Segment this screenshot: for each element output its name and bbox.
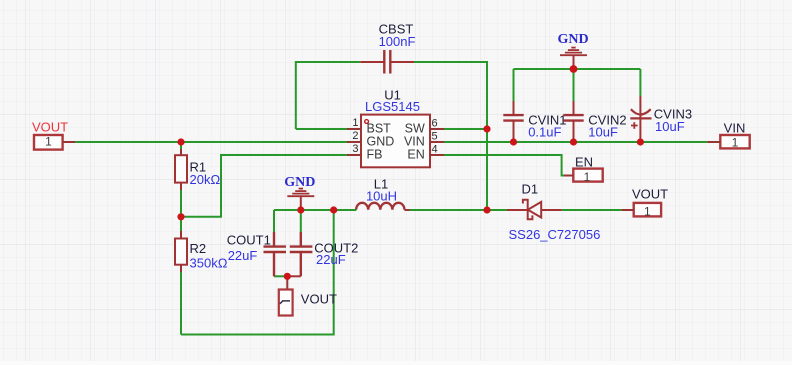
svg-text:D1: D1 xyxy=(522,182,539,197)
junction node CVIN3 xyxy=(637,138,644,145)
junction node CVIN2 xyxy=(570,138,577,145)
capacitor CVIN3 polarized xyxy=(630,96,651,142)
svg-text:4: 4 xyxy=(432,144,438,156)
ground (top right) xyxy=(560,48,587,69)
wire: FB dogleg xyxy=(181,155,347,217)
wire: COUT1 riser xyxy=(273,210,275,232)
pin 1 indicator xyxy=(365,120,369,124)
svg-text:VIN: VIN xyxy=(724,121,746,136)
svg-text:EN: EN xyxy=(575,154,593,169)
wire: CBST loop left vertical and top xyxy=(296,62,360,129)
capacitor COUT1 xyxy=(264,232,287,276)
wire: VIN row xyxy=(444,141,707,143)
svg-text:EN: EN xyxy=(407,148,424,162)
svg-text:6: 6 xyxy=(432,118,438,130)
ground (middle) xyxy=(287,189,314,210)
wire: bottom loop xyxy=(181,210,334,335)
wire: CVIN1 drop xyxy=(513,69,515,101)
wire: COUT2 riser xyxy=(300,210,302,232)
wire: CBST right to SW vertical xyxy=(414,62,487,210)
wire: COUT bottom link xyxy=(274,275,287,277)
svg-text:100nF: 100nF xyxy=(379,34,416,49)
IC U1 LGS5145 body xyxy=(361,115,430,168)
junction node CVIN1 xyxy=(510,138,517,145)
capacitor COUT2 xyxy=(287,232,312,276)
junction node SW xyxy=(483,125,490,132)
wire: CVIN3 drop xyxy=(639,69,641,96)
wire: COUT top rail xyxy=(274,209,341,211)
svg-text:350kΩ: 350kΩ xyxy=(190,256,228,271)
svg-text:VOUT: VOUT xyxy=(32,120,68,135)
junction node COUT2 top xyxy=(297,206,304,213)
canvas bottom edge xyxy=(0,361,792,365)
svg-text:VOUT: VOUT xyxy=(632,187,668,202)
port VOUT (left) xyxy=(34,135,63,150)
junction node SW/D1 xyxy=(483,206,490,213)
port EN xyxy=(573,169,602,182)
wire: VOUT port to U1 pin2 row xyxy=(75,141,347,143)
net flag VOUT (bottom) xyxy=(286,276,288,289)
diode D1 xyxy=(507,200,562,220)
svg-text:GND: GND xyxy=(284,175,315,190)
svg-text:20kΩ: 20kΩ xyxy=(190,172,221,187)
wire: CVIN2 drop xyxy=(573,69,575,101)
svg-text:1: 1 xyxy=(352,117,358,129)
svg-text:5: 5 xyxy=(432,131,438,143)
svg-text:22uF: 22uF xyxy=(316,252,346,267)
junction node GND rail xyxy=(570,65,578,73)
svg-text:VIN: VIN xyxy=(404,135,425,149)
capacitor CVIN1 xyxy=(503,101,523,142)
resistor R1 xyxy=(180,149,182,156)
svg-text:SW: SW xyxy=(405,122,425,136)
wire: D1 to VOUT right port xyxy=(562,209,622,211)
port VOUT (right) xyxy=(634,203,661,217)
svg-text:10uH: 10uH xyxy=(366,189,397,204)
svg-text:BST: BST xyxy=(367,122,392,136)
junction node L1 left xyxy=(330,206,337,213)
port VIN xyxy=(720,135,749,148)
capacitor CVIN2 xyxy=(563,101,583,142)
svg-text:10uF: 10uF xyxy=(655,119,685,134)
svg-text:2: 2 xyxy=(352,130,358,142)
junction node R1/R2 FB xyxy=(177,213,184,220)
svg-text:1: 1 xyxy=(45,134,52,148)
wire: R1 R2 column xyxy=(180,142,182,335)
svg-text:1: 1 xyxy=(584,170,591,184)
wire: EN row dogleg xyxy=(444,155,564,176)
wire: SW row xyxy=(444,128,487,130)
wire: input cap top rail xyxy=(514,68,641,70)
svg-text:LGS5145: LGS5145 xyxy=(365,99,420,114)
svg-text:3: 3 xyxy=(352,143,358,155)
wire: SW node to D1 xyxy=(487,209,507,211)
svg-text:10uF: 10uF xyxy=(588,124,618,139)
svg-text:COUT1: COUT1 xyxy=(227,233,271,248)
capacitor CBST xyxy=(360,50,414,74)
svg-text:1: 1 xyxy=(732,135,739,149)
svg-text:GND: GND xyxy=(558,32,589,47)
junction node COUT bottom xyxy=(284,273,291,280)
wire: BST row xyxy=(296,128,347,130)
svg-text:R2: R2 xyxy=(190,241,207,256)
svg-text:GND: GND xyxy=(367,135,395,149)
svg-text:0.1uF: 0.1uF xyxy=(528,124,561,139)
svg-text:FB: FB xyxy=(367,148,383,162)
junction node R1 top xyxy=(177,138,184,145)
wire: L1 right to SW node xyxy=(408,209,487,211)
resistor R2 xyxy=(180,231,182,239)
svg-text:22uF: 22uF xyxy=(228,248,258,263)
U1 pin leads xyxy=(347,129,444,155)
svg-text:SS26_C727056: SS26_C727056 xyxy=(509,227,601,242)
svg-text:1: 1 xyxy=(644,204,651,218)
inductor L1 xyxy=(356,203,404,210)
svg-text:VOUT: VOUT xyxy=(301,292,337,307)
